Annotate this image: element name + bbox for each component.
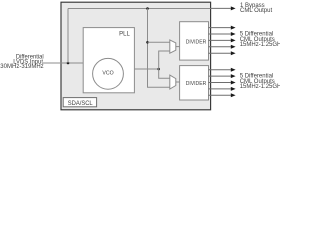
svg-text:30MHz-319MHz: 30MHz-319MHz xyxy=(0,64,43,70)
VCO circle xyxy=(93,58,124,89)
wire: mux1 to divider1 xyxy=(176,46,180,48)
divider2 output arrow 2 xyxy=(209,74,236,78)
divider1 output arrow 5 xyxy=(209,51,236,55)
bypass output arrow xyxy=(211,7,231,9)
label: 5 differential CML outputs (bottom) xyxy=(240,74,285,90)
wire: PLL output xyxy=(134,68,158,70)
mux M1 xyxy=(170,40,176,53)
wire: PLL to mux2 input A xyxy=(159,69,170,78)
divider1 output arrow 4 xyxy=(209,45,236,49)
node: mux1 bypass tap xyxy=(146,41,149,44)
divider1 output arrow 1 xyxy=(209,26,236,30)
svg-text:VCO: VCO xyxy=(102,71,113,77)
svg-text:DIVIDER: DIVIDER xyxy=(186,39,207,45)
wire: PLL to mux1 input B xyxy=(159,51,170,69)
chip outline xyxy=(61,2,211,110)
wire: bypass top run xyxy=(68,8,211,10)
wire: mux2 to divider2 xyxy=(176,81,180,83)
label: differential LVDS input xyxy=(0,54,43,70)
svg-text:SDA/SCL: SDA/SCL xyxy=(68,101,94,107)
divider2 output arrow 5 xyxy=(209,93,236,97)
wire: differential input xyxy=(43,62,83,64)
svg-text:PLL: PLL xyxy=(119,31,130,37)
divider2 output arrow 3 xyxy=(209,81,236,85)
node: bypass tap xyxy=(146,7,149,10)
svg-text:15MHz-1.25GHz: 15MHz-1.25GHz xyxy=(240,42,280,48)
divider 2 box xyxy=(180,66,209,100)
node: input junction xyxy=(67,62,70,65)
wire: bypass to mux1 input A xyxy=(148,41,170,43)
PLL box xyxy=(83,28,134,93)
svg-text:DIVIDER: DIVIDER xyxy=(186,81,207,87)
label: 1 bypass CML output xyxy=(240,3,272,14)
wire: bypass riser xyxy=(67,9,69,64)
divider 1 box xyxy=(180,22,209,60)
svg-text:15MHz-1.25GHz: 15MHz-1.25GHz xyxy=(240,84,280,90)
SDA/SCL box xyxy=(63,98,96,107)
divider2 output arrow 4 xyxy=(209,87,236,91)
label: 5 differential CML outputs (top) xyxy=(240,32,285,48)
divider1 output arrow 2 xyxy=(209,32,236,36)
divider2 output arrow 1 xyxy=(209,68,236,72)
wire: bypass drop to mux2 xyxy=(148,9,170,88)
divider1 output arrow 3 xyxy=(209,38,236,42)
mux M2 xyxy=(170,75,176,89)
node: PLL fanout junction xyxy=(157,68,160,71)
svg-text:CML Output: CML Output xyxy=(240,8,272,14)
